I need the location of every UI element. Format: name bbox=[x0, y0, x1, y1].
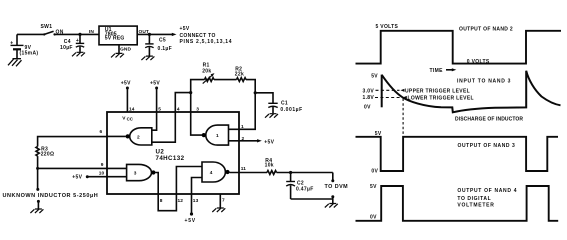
svg-text:5 VOLTS: 5 VOLTS bbox=[376, 24, 399, 30]
svg-text:20k: 20k bbox=[202, 68, 211, 74]
ground (battery) bbox=[8, 59, 22, 67]
pin 7 ground bbox=[212, 194, 225, 212]
TO DVM terminals bbox=[325, 173, 349, 204]
IC U2 74HC132 bbox=[107, 112, 239, 194]
wire pin 6 to R3 bbox=[38, 137, 107, 147]
svg-text:10: 10 bbox=[99, 171, 105, 177]
svg-text:0V: 0V bbox=[371, 168, 378, 174]
waveform: output of NAND 2 bbox=[356, 24, 562, 65]
pin 2 wire to +5V bbox=[239, 136, 275, 146]
ground (C5) bbox=[141, 56, 154, 60]
svg-text:0 VOLTS: 0 VOLTS bbox=[467, 59, 490, 65]
U-wire pin 8 to pin 12 bbox=[158, 194, 176, 211]
gate 2 output wire (pin 6) bbox=[100, 129, 126, 136]
svg-text:0.001µF: 0.001µF bbox=[280, 107, 302, 113]
svg-text:TO DVM: TO DVM bbox=[325, 184, 349, 190]
svg-text:UNKNOWN INDUCTOR 5-250µH: UNKNOWN INDUCTOR 5-250µH bbox=[3, 193, 99, 199]
svg-text:5V: 5V bbox=[370, 184, 377, 190]
+5V output arrow bbox=[172, 26, 232, 45]
svg-text:TO DIGITAL: TO DIGITAL bbox=[457, 196, 491, 202]
capacitor C5 0.1uF bbox=[145, 34, 172, 55]
ground (DVM) bbox=[325, 204, 338, 208]
wire R3 to junction bbox=[37, 156, 39, 168]
+5V arrow (pin 5) bbox=[150, 81, 160, 90]
svg-text:2: 2 bbox=[137, 134, 140, 140]
svg-text:12: 12 bbox=[178, 198, 184, 204]
wire R1 to R2 bbox=[214, 79, 237, 81]
svg-text:+5V: +5V bbox=[185, 218, 196, 224]
svg-text:C1: C1 bbox=[281, 100, 288, 106]
pin 13 wire to +5V bbox=[185, 194, 199, 224]
svg-text:5V: 5V bbox=[375, 131, 382, 137]
NAND gate 4 bbox=[202, 162, 230, 182]
time axis label bbox=[430, 68, 457, 74]
ground (C1) bbox=[265, 114, 278, 118]
svg-text:3: 3 bbox=[134, 171, 137, 177]
svg-text:5: 5 bbox=[158, 106, 161, 112]
svg-text:VOLTMETER: VOLTMETER bbox=[457, 202, 494, 208]
svg-text:OUTPUT OF NAND 3: OUTPUT OF NAND 3 bbox=[458, 143, 516, 149]
svg-text:3: 3 bbox=[196, 106, 199, 112]
gate 1 input stubs bbox=[229, 129, 240, 141]
upper trigger level dashed line bbox=[376, 88, 470, 94]
wire R2 to C1/pin1 bbox=[246, 80, 255, 93]
svg-text:0.47µF: 0.47µF bbox=[296, 187, 314, 193]
lower trigger level dashed line bbox=[375, 96, 474, 102]
svg-text:4: 4 bbox=[210, 170, 213, 176]
node C4 junction bbox=[78, 33, 81, 36]
svg-text:3.0V: 3.0V bbox=[363, 88, 375, 94]
svg-text:+: + bbox=[76, 38, 79, 44]
svg-text:OUTPUT OF NAND 4: OUTPUT OF NAND 4 bbox=[457, 188, 517, 194]
svg-text:5V REG: 5V REG bbox=[105, 36, 125, 42]
NAND gate 3 bbox=[127, 164, 156, 180]
wire battery to switch bbox=[17, 33, 44, 35]
svg-text:+5V: +5V bbox=[72, 175, 82, 181]
node junction (inductor top) bbox=[36, 167, 39, 170]
resistor R3 220ohm bbox=[36, 146, 54, 157]
svg-text:2: 2 bbox=[242, 136, 245, 142]
waveform: output of NAND 4 bbox=[356, 184, 559, 221]
svg-text:0V: 0V bbox=[370, 214, 377, 220]
node junction C1 bbox=[254, 91, 257, 94]
ground (inductor) bbox=[30, 209, 43, 213]
svg-text:0.1µF: 0.1µF bbox=[158, 46, 173, 52]
pin 11 output wire bbox=[230, 166, 268, 172]
pin 5 bbox=[157, 88, 162, 112]
svg-text:1: 1 bbox=[216, 133, 219, 139]
svg-text:(15mA): (15mA) bbox=[20, 50, 39, 56]
wire pin 1 bbox=[239, 93, 255, 130]
svg-text:+: + bbox=[10, 40, 13, 46]
svg-text:10k: 10k bbox=[265, 163, 274, 169]
node junction pin3/pin4 bbox=[189, 91, 192, 94]
switch SW1 bbox=[41, 24, 64, 36]
svg-text:74HC132: 74HC132 bbox=[156, 155, 185, 162]
+5V arrow (pin 14) bbox=[121, 81, 131, 90]
pin 10 +5V arrow bbox=[72, 171, 126, 181]
svg-text:4: 4 bbox=[177, 106, 180, 112]
node C5 junction bbox=[148, 33, 151, 36]
capacitor C4 10uF bbox=[60, 34, 84, 52]
svg-text:C2: C2 bbox=[297, 180, 304, 186]
capacitor C2 0.47uF bbox=[286, 173, 313, 200]
svg-text:C5: C5 bbox=[159, 38, 166, 44]
svg-text:22k: 22k bbox=[235, 71, 244, 77]
wire switch to regulator bbox=[55, 33, 99, 35]
svg-text:10µF: 10µF bbox=[60, 45, 73, 51]
svg-text:+5V: +5V bbox=[150, 81, 160, 87]
svg-text:LOWER TRIGGER LEVEL: LOWER TRIGGER LEVEL bbox=[408, 96, 474, 102]
svg-text:1.8V: 1.8V bbox=[363, 95, 375, 101]
gate 4 bottom input wire from pin 13 bbox=[192, 178, 203, 195]
svg-text:7: 7 bbox=[222, 197, 225, 203]
ground (C4) bbox=[72, 52, 85, 56]
svg-text:TIME: TIME bbox=[430, 68, 444, 74]
pin 3 wire to R1 bbox=[191, 80, 205, 113]
svg-text:C4: C4 bbox=[64, 39, 71, 45]
resistor R2 22k bbox=[235, 67, 246, 82]
svg-text:SW1: SW1 bbox=[41, 24, 53, 30]
svg-text:8: 8 bbox=[160, 198, 163, 204]
svg-text:220Ω: 220Ω bbox=[41, 151, 55, 157]
node junction C2 bbox=[289, 171, 292, 174]
wire regulator output bbox=[137, 33, 172, 35]
svg-text:OUTPUT OF NAND 2: OUTPUT OF NAND 2 bbox=[459, 27, 513, 33]
wire C2 bottom to DVM ground bbox=[291, 198, 333, 200]
svg-text:GND: GND bbox=[120, 47, 131, 53]
capacitor C1 0.001uF bbox=[268, 100, 302, 113]
svg-text:13: 13 bbox=[193, 198, 199, 204]
svg-text:+5V: +5V bbox=[180, 26, 190, 32]
svg-text:9: 9 bbox=[101, 162, 104, 168]
wire to C1 bbox=[255, 93, 273, 103]
wire R4 to DVM bbox=[277, 172, 333, 174]
svg-text:0V: 0V bbox=[364, 105, 371, 111]
gate 3 output wire down to pin 8 bbox=[155, 173, 158, 195]
potentiometer R1 20k bbox=[202, 63, 214, 84]
svg-text:14: 14 bbox=[129, 106, 135, 112]
dashed vertical timing line bbox=[402, 99, 404, 137]
svg-text:UPPER TRIGGER LEVEL: UPPER TRIGGER LEVEL bbox=[405, 88, 470, 94]
svg-text:IN: IN bbox=[89, 29, 94, 35]
svg-text:1: 1 bbox=[241, 124, 244, 130]
gate 4 input wire from pin 12 bbox=[176, 167, 202, 195]
wire junction to pin 9 bbox=[38, 162, 127, 169]
svg-text:DISCHARGE OF INDUCTOR: DISCHARGE OF INDUCTOR bbox=[455, 116, 523, 122]
NAND gate 1 (mirrored) bbox=[202, 125, 229, 145]
svg-text:+5V: +5V bbox=[121, 81, 131, 87]
svg-text:CC: CC bbox=[127, 117, 134, 122]
waveform: input to NAND 3 bbox=[363, 71, 561, 123]
svg-text:5V: 5V bbox=[371, 73, 378, 79]
battery B1 9V bbox=[10, 34, 38, 58]
waveform: output of NAND 3 bbox=[356, 131, 559, 174]
pin 14 bbox=[127, 88, 134, 112]
regulator U1 7805 bbox=[89, 26, 149, 53]
unknown inductor Lx bbox=[3, 168, 99, 208]
svg-text:11: 11 bbox=[241, 166, 247, 172]
gate 1 output wire to pin 3 bbox=[191, 112, 202, 135]
svg-text:+5V: +5V bbox=[264, 139, 274, 145]
ground (U1 GND) bbox=[111, 53, 124, 57]
resistor R4 10k bbox=[265, 158, 277, 174]
svg-text:INPUT TO NAND 3: INPUT TO NAND 3 bbox=[457, 78, 511, 84]
pin 4 wire bbox=[175, 93, 190, 113]
gate 2 input wires to pins 5,4 bbox=[152, 112, 157, 130]
svg-text:PINS 2,5,10,13,14: PINS 2,5,10,13,14 bbox=[180, 39, 233, 45]
NAND gate 2 (mirrored) bbox=[126, 128, 152, 145]
svg-text:6: 6 bbox=[100, 129, 103, 135]
